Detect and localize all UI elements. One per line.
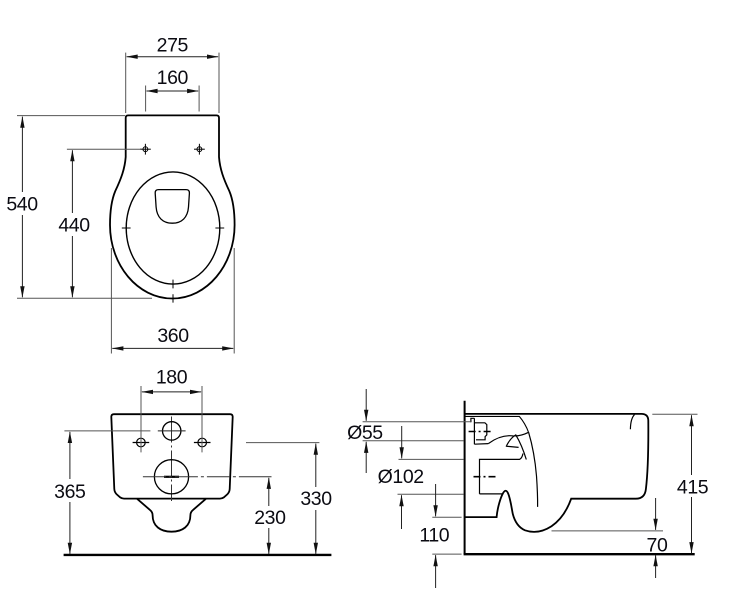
top surface inner line and rim slope: [465, 416, 529, 432]
dim 440 line: [71, 150, 73, 297]
rear outlet throat: [137, 499, 206, 532]
dim O102 arrows: [401, 426, 403, 458]
outlet circle center mark: [164, 476, 179, 478]
svg-text:330: 330: [300, 488, 332, 510]
svg-text:Ø102: Ø102: [378, 466, 424, 488]
dim 70 arrows: [655, 498, 657, 530]
rear vertical centerline: [171, 417, 173, 502]
wall line: [464, 401, 466, 554]
outlet centerline + dim 230 extension: [143, 476, 243, 478]
dim 230 line: [268, 478, 270, 554]
svg-text:110: 110: [419, 524, 449, 546]
svg-text:415: 415: [677, 476, 709, 498]
dim 360 line: [112, 347, 233, 349]
inlet centerline (side): [469, 431, 492, 433]
svg-text:230: 230: [254, 507, 286, 529]
dim 160 line: [147, 90, 199, 92]
dim 360 extension lines: [111, 248, 234, 354]
dim O102 extension lines: [398, 459, 464, 494]
dim 440 text: [56, 213, 91, 236]
dim 330 text: [298, 487, 334, 510]
outlet circle (rear): [154, 460, 188, 494]
side floor line: [464, 553, 695, 555]
bowl outer outline: [110, 115, 235, 298]
dim 365 line: [69, 432, 71, 554]
svg-text:Ø55: Ø55: [347, 422, 383, 444]
mounting hole right (top view): [194, 144, 205, 155]
dim 180 extension lines through holes: [141, 386, 202, 452]
rear hole right: [194, 438, 211, 447]
dim 110 extension lines: [432, 517, 461, 554]
dim 180 line: [142, 391, 201, 393]
ellipse tick marks: [122, 228, 224, 303]
dim 415 line: [691, 415, 693, 553]
dim 540 line: [21, 117, 23, 298]
dim 440 extension line: [67, 148, 141, 150]
side body outline: [465, 414, 649, 532]
svg-text:70: 70: [647, 535, 668, 557]
rim underside curve: [488, 432, 528, 443]
dim 330 line: [315, 444, 317, 554]
dim 365 text: [52, 479, 88, 502]
dim 540 extension lines: [17, 116, 152, 299]
dim O55 arrows: [365, 389, 367, 421]
water inlet circle (rear): [163, 422, 181, 440]
svg-text:180: 180: [156, 367, 188, 389]
svg-text:160: 160: [157, 67, 189, 89]
inner rim arc right end: [630, 414, 634, 429]
dim 275 line: [127, 56, 219, 58]
outlet mouth (side): [480, 454, 524, 494]
rear body outline: [111, 414, 232, 498]
dim 415 extension line: [652, 413, 697, 415]
rear floor line: [64, 554, 332, 556]
dim 330 extension line: [246, 442, 319, 444]
inner bowl back curve: [529, 432, 538, 507]
svg-text:275: 275: [157, 34, 189, 56]
dim 70 extension line: [552, 530, 664, 532]
svg-text:440: 440: [58, 215, 90, 237]
dim 275 extension lines: [126, 53, 219, 113]
jet channel bottom line: [506, 446, 519, 447]
jet channel hook: [507, 435, 527, 460]
dim 415 text: [674, 475, 710, 497]
dim 110 arrows: [435, 484, 437, 516]
dim 230 text: [251, 506, 287, 528]
dim O55 extension lines: [363, 422, 471, 441]
outlet centerline (side): [474, 476, 499, 478]
svg-text:540: 540: [6, 194, 38, 216]
mounting hole left (top view): [140, 144, 151, 155]
inlet circle horizontal tick: [158, 430, 186, 432]
dim 160 extension lines: [146, 86, 200, 112]
inlet spigot profile: [471, 418, 488, 444]
dim 365 extension line: [64, 430, 150, 432]
svg-text:365: 365: [54, 481, 86, 503]
seat inner ellipse: [126, 172, 220, 284]
dim 540 text: [5, 192, 40, 215]
svg-text:360: 360: [157, 325, 189, 347]
flush inlet inset: [155, 190, 189, 224]
rear hole left: [133, 438, 150, 447]
